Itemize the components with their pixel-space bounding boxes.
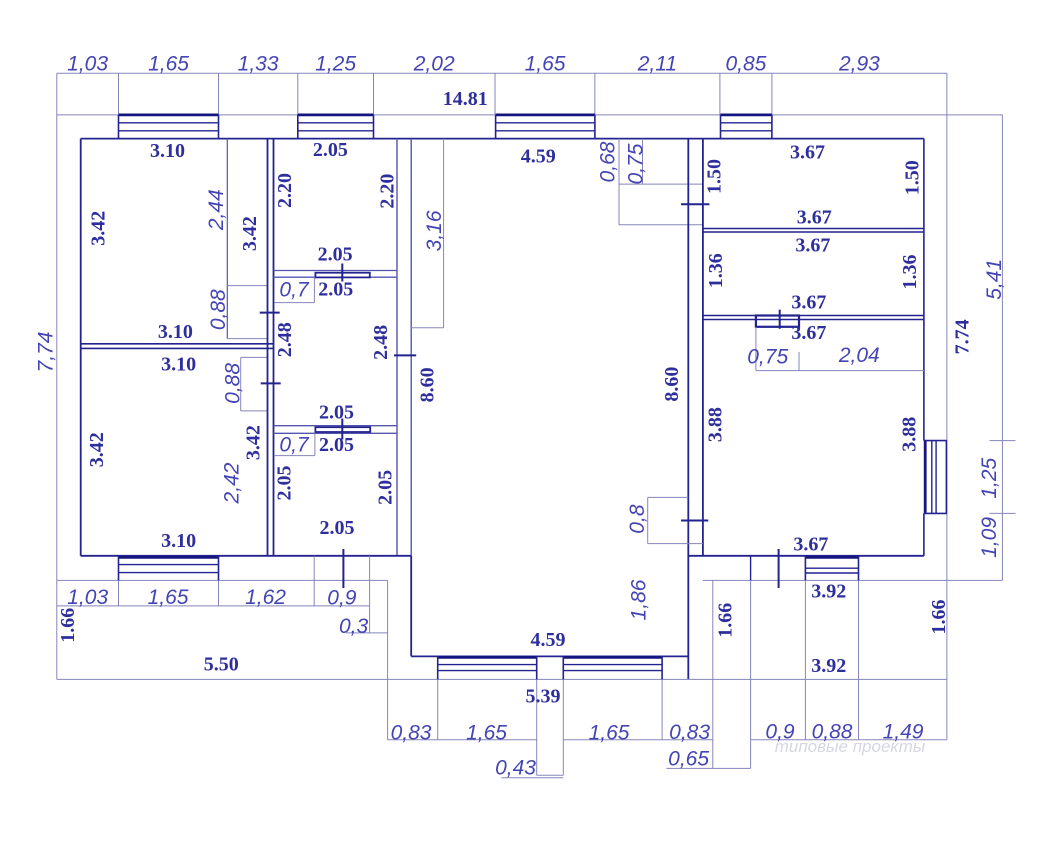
- interior dim extension left: [755, 327, 757, 371]
- hall door annotation box top: [648, 496, 689, 498]
- svg-text:2.48: 2.48: [274, 322, 296, 357]
- partition between upper-left rooms line1: [81, 343, 274, 345]
- svg-text:3.10: 3.10: [150, 140, 185, 162]
- lower closet bottom line: [241, 410, 268, 412]
- middle rooms right face: [396, 139, 398, 556]
- tick at bottom of middle column: [342, 549, 344, 588]
- svg-text:0,8: 0,8: [626, 504, 649, 534]
- hall bottom outer edge and bottom dim line 5.50: [57, 678, 947, 680]
- window W2 top wall: [298, 114, 374, 117]
- hall left face upper: [410, 139, 412, 556]
- hall left face lower: [410, 556, 412, 657]
- svg-text:0,43: 0,43: [495, 757, 536, 780]
- svg-text:2.05: 2.05: [318, 278, 353, 300]
- svg-text:2.05: 2.05: [375, 470, 397, 505]
- hall door annotation box side: [647, 497, 649, 543]
- bottom dim line row2: [388, 739, 537, 741]
- lower closet top line: [241, 356, 268, 358]
- svg-text:3.67: 3.67: [795, 235, 830, 257]
- svg-text:2.20: 2.20: [274, 173, 296, 208]
- svg-text:5,41: 5,41: [983, 259, 1006, 300]
- door block in partition 2/3: [756, 316, 799, 327]
- window W4 top wall: [721, 114, 772, 117]
- door 0,7 annotation lower: side line: [314, 433, 316, 455]
- bottom inner face left+middle section: [81, 555, 412, 557]
- dim separators row2: [437, 679, 439, 739]
- svg-text:5.50: 5.50: [204, 653, 239, 675]
- door 0,7 annotation upper: side line: [313, 277, 315, 302]
- inner face of left wall: [80, 139, 82, 556]
- svg-text:3.92: 3.92: [811, 655, 846, 677]
- partition middle rooms A/B line1: [274, 270, 398, 272]
- bottom outer edge left section: [57, 579, 388, 581]
- right rooms inner right face lower: [923, 513, 925, 555]
- partition right rooms 2/3 line2: [703, 319, 924, 321]
- svg-text:1.66: 1.66: [715, 603, 737, 638]
- svg-text:2.48: 2.48: [370, 325, 392, 360]
- svg-text:3.92: 3.92: [811, 581, 846, 603]
- tick on wall at upper closet: [260, 312, 280, 314]
- interior dim line 0,75/2,04: [756, 370, 924, 372]
- tick at door block: [779, 310, 781, 329]
- svg-text:1,65: 1,65: [148, 53, 189, 76]
- partition right rooms 1/2 line1: [703, 228, 924, 230]
- inner face of top wall: [81, 138, 924, 140]
- porch column below hall: [536, 679, 538, 775]
- bottom outer edge right section + extension to right dim line: [703, 579, 1003, 581]
- right dim tick at window top: [990, 440, 1016, 442]
- window W6 right wall: [924, 441, 927, 514]
- label 0,43 underline: [501, 777, 563, 779]
- svg-text:1.36: 1.36: [899, 255, 921, 290]
- upper closet bottom line: [227, 338, 267, 340]
- bottom inner face right section: [688, 555, 924, 557]
- right porch strip: [712, 580, 714, 768]
- svg-text:2,42: 2,42: [221, 462, 244, 504]
- hall door annotation box bottom: [648, 543, 703, 545]
- svg-text:0,7: 0,7: [279, 279, 310, 302]
- svg-text:2.05: 2.05: [319, 434, 354, 456]
- shaft bottom line: [619, 224, 703, 226]
- svg-text:1.50: 1.50: [901, 160, 923, 195]
- svg-text:2.05: 2.05: [274, 466, 296, 501]
- step notch 0,3 line: [346, 632, 388, 634]
- svg-text:3.67: 3.67: [793, 534, 828, 556]
- double wall right line: [273, 139, 275, 556]
- svg-text:типовые проекты: типовые проекты: [775, 737, 926, 756]
- svg-text:2,11: 2,11: [637, 53, 677, 76]
- svg-text:2.20: 2.20: [377, 174, 399, 209]
- right rooms inner right face upper: [923, 139, 925, 441]
- svg-text:14.81: 14.81: [443, 88, 488, 110]
- interior dim tick: [798, 352, 800, 371]
- tick on hall right wall at door: [681, 520, 708, 522]
- svg-text:0,83: 0,83: [669, 721, 710, 744]
- svg-text:1,03: 1,03: [67, 586, 108, 609]
- window W5 bottom-right wall: [805, 556, 858, 559]
- svg-text:2,93: 2,93: [838, 53, 880, 76]
- right outer wall extension down to bottom dim line: [946, 580, 948, 739]
- svg-text:3.42: 3.42: [239, 216, 261, 251]
- svg-text:5.39: 5.39: [526, 685, 561, 707]
- svg-text:3.67: 3.67: [797, 207, 832, 229]
- svg-text:3.67: 3.67: [791, 322, 826, 344]
- svg-text:3.10: 3.10: [158, 321, 193, 343]
- svg-text:3.88: 3.88: [705, 407, 727, 442]
- right dimension line: [1001, 115, 1003, 581]
- svg-text:0,3: 0,3: [339, 615, 369, 638]
- svg-text:1,62: 1,62: [245, 586, 286, 609]
- svg-text:1,65: 1,65: [525, 53, 566, 76]
- outer wall top extension to right dim line: [947, 114, 1003, 116]
- svg-text:3.42: 3.42: [86, 432, 108, 467]
- door 0,7 annotation upper: underline: [275, 302, 315, 304]
- svg-text:3.67: 3.67: [791, 292, 826, 314]
- tick on hall right wall upper: [681, 203, 709, 205]
- svg-text:0,75: 0,75: [625, 143, 648, 184]
- step vertical to porch level: [387, 580, 389, 739]
- svg-text:1,25: 1,25: [978, 457, 1001, 498]
- svg-text:2.05: 2.05: [319, 401, 354, 423]
- top dimension line: [57, 72, 947, 74]
- partition middle rooms A/B line2: [274, 276, 398, 278]
- svg-text:1,65: 1,65: [589, 721, 630, 744]
- svg-text:4.59: 4.59: [521, 145, 556, 167]
- svg-text:1.66: 1.66: [928, 600, 950, 635]
- svg-text:2.05: 2.05: [320, 517, 355, 539]
- svg-text:3.42: 3.42: [87, 211, 109, 246]
- door edges bottom-right wall: [750, 556, 752, 581]
- interior dim line 3,16 vertical: [443, 139, 445, 328]
- hall right wall line2: [702, 139, 704, 556]
- door 0,7 annotation lower: underline: [274, 455, 315, 457]
- dim separators row1: [118, 580, 120, 606]
- door lintel box in partition B/C: [315, 427, 370, 432]
- svg-text:2.05: 2.05: [313, 139, 348, 161]
- shaft left line: [618, 139, 620, 225]
- svg-text:7,74: 7,74: [35, 332, 58, 373]
- svg-text:3.10: 3.10: [161, 530, 196, 552]
- top dim extension ticks: [118, 73, 120, 115]
- svg-text:2,04: 2,04: [838, 344, 880, 367]
- svg-text:0,9: 0,9: [327, 586, 357, 609]
- hall bottom window HW1: [438, 656, 537, 659]
- svg-text:0,88: 0,88: [207, 289, 230, 330]
- partition right rooms 2/3 line1: [703, 315, 924, 317]
- interior dim line 3,16 foot: [411, 327, 443, 329]
- upper closet top line: [227, 285, 267, 287]
- shaft inner divider: [642, 139, 644, 185]
- double wall left line: [267, 139, 269, 556]
- svg-text:3.42: 3.42: [243, 425, 265, 460]
- window W1b bottom-left wall: [119, 556, 219, 559]
- shaft mid line: [619, 183, 703, 185]
- svg-text:1,33: 1,33: [238, 53, 279, 76]
- svg-text:1.36: 1.36: [705, 253, 727, 288]
- svg-text:0,85: 0,85: [725, 53, 766, 76]
- svg-text:7.74: 7.74: [952, 319, 974, 354]
- door 0,9 bottom-left: edges: [313, 556, 315, 581]
- outer wall top line: [57, 114, 947, 116]
- tick at partition B/C: [341, 419, 343, 440]
- svg-text:1,86: 1,86: [628, 579, 651, 620]
- outer wall left: [56, 73, 58, 679]
- closet strip divider upper-left: [226, 139, 228, 339]
- hall right wall line1: [687, 139, 689, 680]
- tick under 2.05 label top room: [341, 264, 343, 282]
- svg-text:8.60: 8.60: [417, 367, 439, 402]
- svg-text:0,88: 0,88: [222, 363, 245, 404]
- tick on hall-side wall: [394, 354, 416, 356]
- svg-text:1,65: 1,65: [148, 586, 189, 609]
- right dim tick at window bottom: [990, 512, 1016, 514]
- door lintel box in partition A/B: [315, 273, 369, 278]
- partition right rooms 1/2 line2: [703, 231, 924, 233]
- svg-text:0,83: 0,83: [391, 721, 432, 744]
- svg-text:1,65: 1,65: [466, 721, 507, 744]
- svg-text:1,09: 1,09: [978, 517, 1001, 558]
- svg-text:3.88: 3.88: [899, 417, 921, 452]
- tick on wall at lower closet: [261, 382, 281, 384]
- hall bottom window HW2: [563, 656, 662, 659]
- svg-text:4.59: 4.59: [531, 629, 566, 651]
- svg-text:3.67: 3.67: [790, 142, 825, 164]
- svg-text:0,75: 0,75: [747, 346, 788, 369]
- svg-text:1,25: 1,25: [315, 53, 356, 76]
- hall bottom inner face: [411, 655, 688, 657]
- partition middle rooms B/C line1: [274, 425, 398, 427]
- svg-text:1,03: 1,03: [67, 53, 108, 76]
- svg-text:8.60: 8.60: [661, 367, 683, 402]
- window W1 top wall: [119, 114, 219, 117]
- svg-text:0,7: 0,7: [279, 434, 310, 457]
- window W3 top wall: [496, 114, 595, 117]
- svg-text:1.50: 1.50: [704, 159, 726, 194]
- bottom dim line row1 left: [57, 605, 370, 607]
- svg-text:0,65: 0,65: [668, 748, 709, 771]
- 0,65 dim line and strip cap: [666, 767, 750, 769]
- svg-text:0,68: 0,68: [597, 141, 620, 182]
- svg-text:3.10: 3.10: [161, 354, 196, 376]
- partition middle rooms B/C line2: [274, 432, 398, 434]
- svg-text:1.66: 1.66: [57, 608, 79, 643]
- svg-text:2,44: 2,44: [205, 189, 228, 231]
- svg-text:2.05: 2.05: [318, 244, 353, 266]
- outer wall right: [946, 73, 948, 580]
- svg-text:3,16: 3,16: [423, 210, 446, 251]
- svg-text:2,02: 2,02: [413, 53, 455, 76]
- lower closet left line: [240, 357, 242, 411]
- partition between upper-left rooms line2: [81, 347, 274, 349]
